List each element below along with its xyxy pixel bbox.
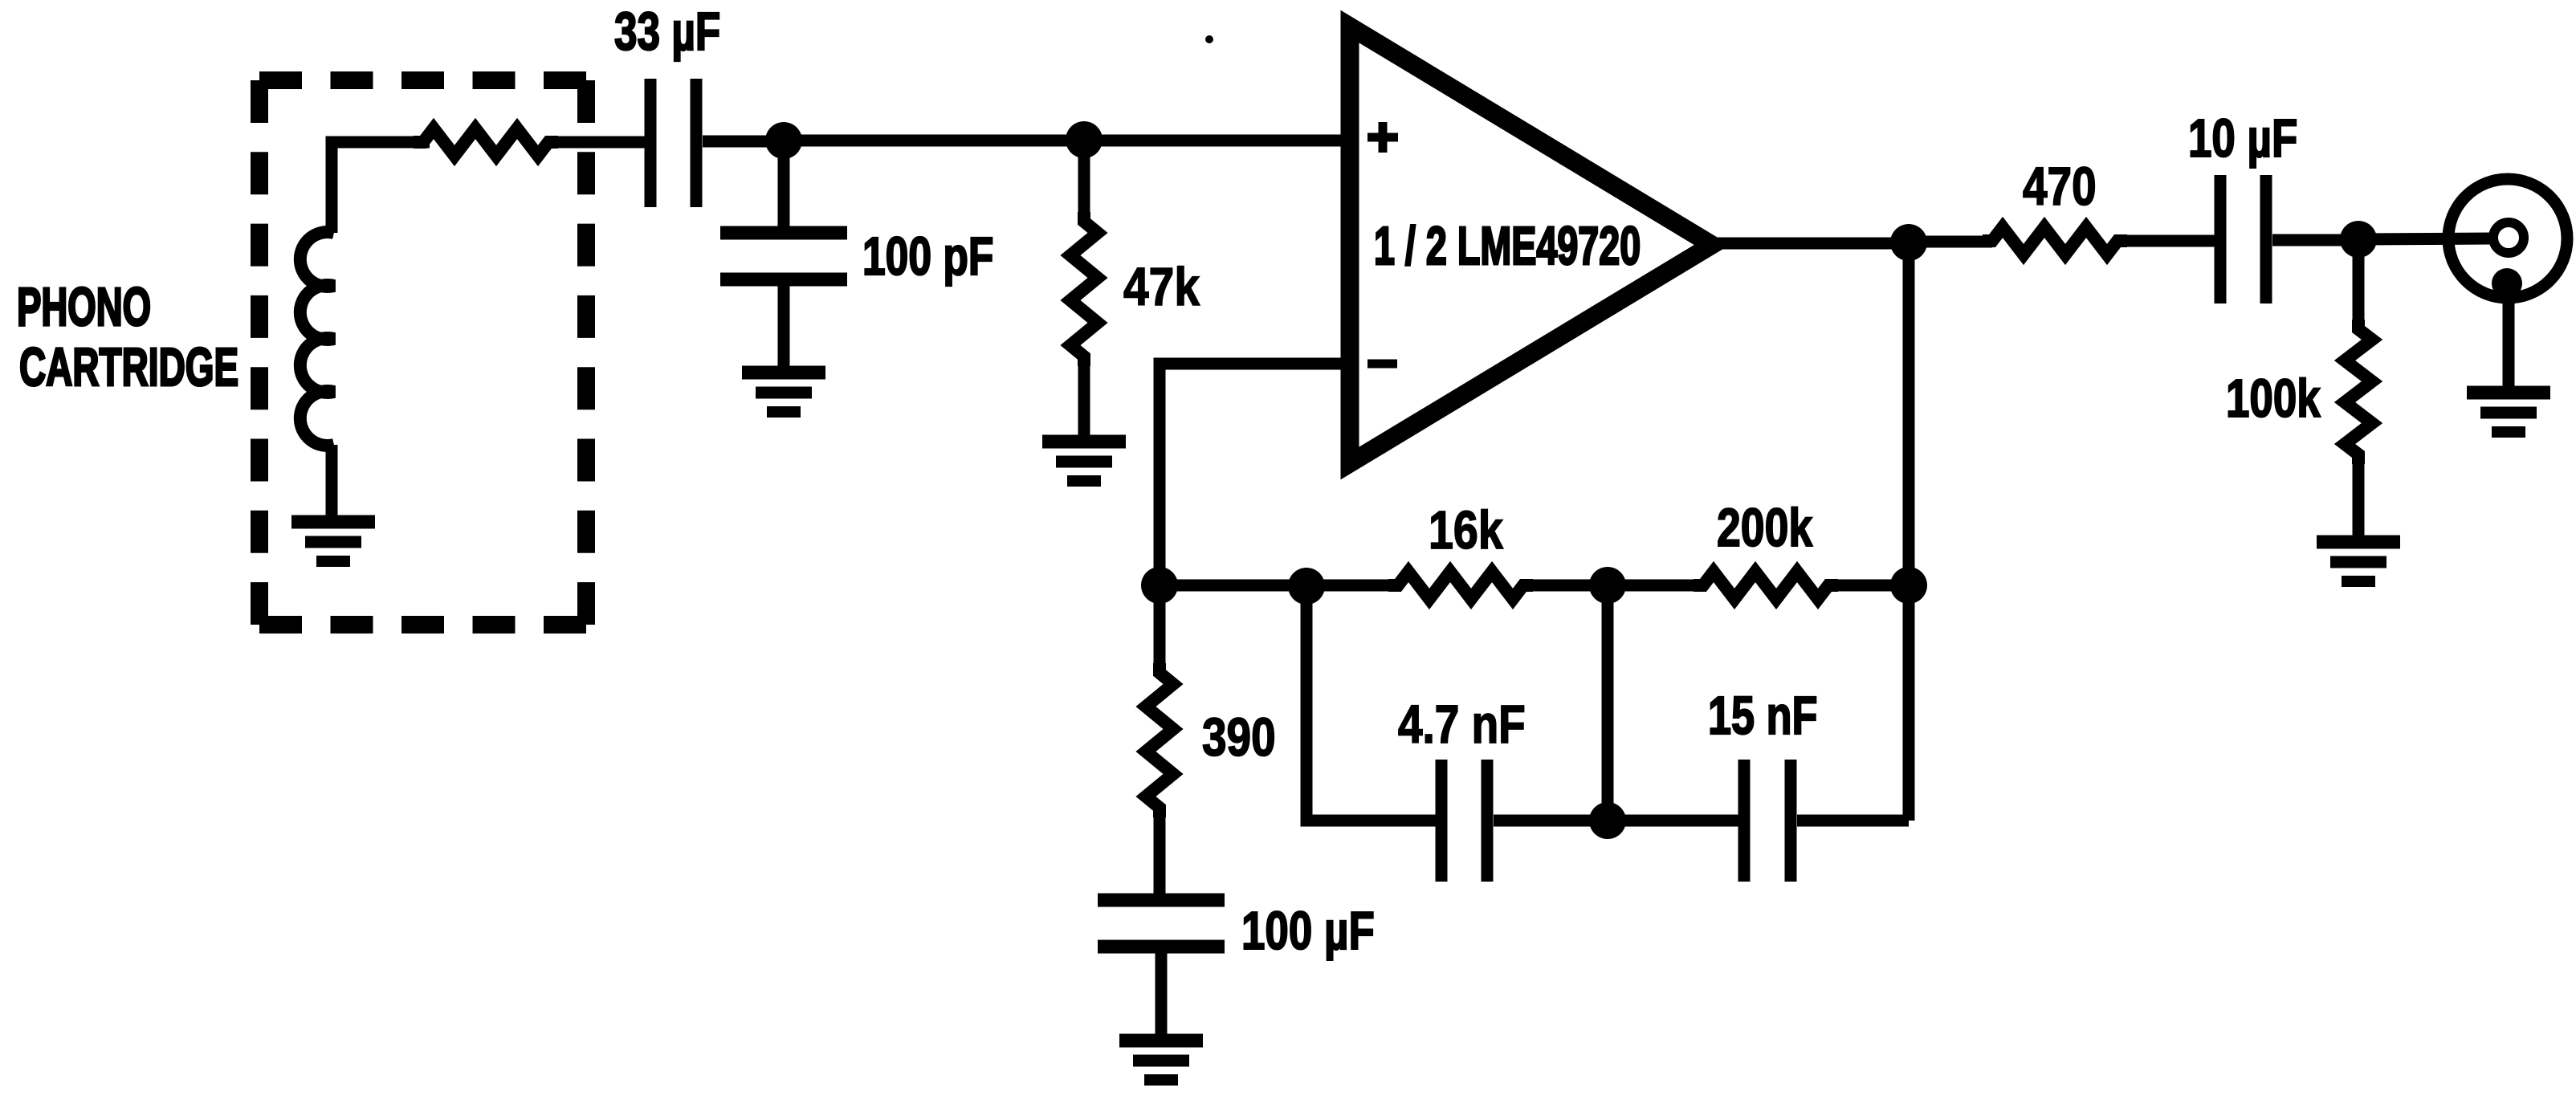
wire (right edge bottom riser) [1903, 585, 1915, 821]
resistor R 47k [1070, 212, 1098, 366]
wire (4.7nF to center junction) [1494, 815, 1608, 827]
wire (node down to 100pF) [778, 141, 790, 226]
ground (under 100k) [2317, 542, 2400, 581]
capacitor C 10uF [2220, 175, 2266, 303]
node (feedback row junction A) [1288, 568, 1325, 605]
node (op-amp + input junction) [1066, 121, 1103, 158]
op-amp U 1/2 LME49720 (triangle) [1350, 26, 1712, 463]
wire (100k to ground) [2353, 454, 2365, 542]
node (bottom loop center junction) [1589, 802, 1626, 839]
svg-text:200k: 200k [1717, 497, 1812, 557]
capacitor C 33uF [650, 79, 696, 207]
wire (feedback row left) [1160, 580, 1399, 592]
wire (cartridge top-left corner) [332, 142, 430, 233]
wire (33uF to input node) [703, 136, 784, 148]
wire (10uF to output node) [2272, 234, 2358, 246]
wire (200k to right edge) [1828, 580, 1909, 592]
svg-text:100k: 100k [2226, 368, 2321, 428]
wire (cartridge resistor to 33uF) [548, 136, 645, 149]
resistor (cartridge internal) [414, 128, 558, 156]
wire (node down to 47k) [1078, 140, 1090, 225]
wire (op-amp - input to feedback node) [1160, 364, 1354, 585]
wire (center junction to 15nF) [1608, 815, 1738, 827]
wire (16k to 200k) [1522, 580, 1704, 592]
connector J OUT (RCA jack) [2448, 179, 2567, 299]
wire (RCA shield to ground) [2503, 289, 2515, 393]
wire (node to op-amp + input) [1084, 135, 1354, 147]
wire (junction A down and to 4.7nF) [1306, 586, 1436, 821]
resistor R 16k [1388, 572, 1533, 599]
ground (cartridge) [291, 522, 375, 561]
wire (input node to 47k node) [784, 135, 1084, 147]
wire (op-amp output) [1707, 238, 1909, 250]
node (output load junction) [2340, 221, 2377, 258]
phono cartridge (dashed outline box) [259, 80, 586, 625]
svg-text:4.7 nF: 4.7 nF [1398, 695, 1526, 754]
wire (output junction to 470) [1909, 236, 1992, 248]
wire (470 to 10uF) [2117, 235, 2215, 247]
ground (under 47k) [1042, 442, 1126, 481]
resistor R 100k [2345, 320, 2372, 464]
svg-text:100 pF: 100 pF [862, 226, 993, 286]
capacitor C 100pF [720, 233, 847, 279]
svg-text:390: 390 [1202, 707, 1276, 767]
op-amp + input marker [1367, 122, 1398, 153]
wire (node to RCA jack) [2358, 238, 2492, 239]
resistor R 470 [1983, 227, 2127, 255]
capacitor C 100uF [1098, 900, 1225, 947]
stray mark (scan artifact) [1205, 35, 1213, 43]
node (feedback row junction B) [1589, 567, 1626, 604]
wire (47k to ground) [1078, 356, 1090, 442]
svg-text:470: 470 [2023, 157, 2097, 216]
wire (100uF to ground) [1156, 953, 1168, 1041]
wire (390 to 100uF) [1154, 808, 1166, 894]
node (output junction) [1890, 224, 1927, 261]
svg-text:16k: 16k [1429, 500, 1503, 560]
wire (feedback node down to 390) [1154, 585, 1166, 673]
svg-text:33 µF: 33 µF [614, 1, 720, 61]
resistor R 200k [1694, 572, 1838, 599]
wire (coil to ground) [326, 445, 338, 522]
resistor R 390 [1146, 663, 1173, 817]
label PHONO CARTRIDGE [17, 277, 238, 397]
inductor (cartridge coil) [300, 232, 334, 446]
node (feedback right junction) [1890, 567, 1927, 604]
svg-text:100 µF: 100 µF [1241, 900, 1375, 960]
node (input junction) [765, 122, 802, 159]
svg-text:1 / 2 LME49720: 1 / 2 LME49720 [1374, 217, 1641, 276]
capacitor C 15nF [1744, 760, 1791, 882]
wire (output junction down to feedback row) [1903, 242, 1915, 585]
svg-text:47k: 47k [1123, 258, 1200, 317]
ground (RCA shield) [2467, 393, 2550, 432]
svg-text:PHONO: PHONO [17, 277, 151, 337]
wire (15nF to right edge) [1797, 815, 1909, 827]
wire (node down to 100k) [2353, 239, 2365, 329]
capacitor C 4.7nF [1441, 760, 1487, 882]
svg-text:15 nF: 15 nF [1708, 686, 1817, 746]
ground (under 100uF) [1119, 1041, 1203, 1080]
op-amp - input marker [1367, 360, 1397, 369]
wire (100pF to ground) [778, 286, 790, 373]
svg-text:CARTRIDGE: CARTRIDGE [19, 338, 238, 398]
ground (under 100pF) [742, 373, 825, 412]
wire (junction B down to bottom loop) [1602, 585, 1614, 821]
svg-text:10 µF: 10 µF [2188, 108, 2297, 168]
node (feedback left junction) [1141, 567, 1178, 604]
